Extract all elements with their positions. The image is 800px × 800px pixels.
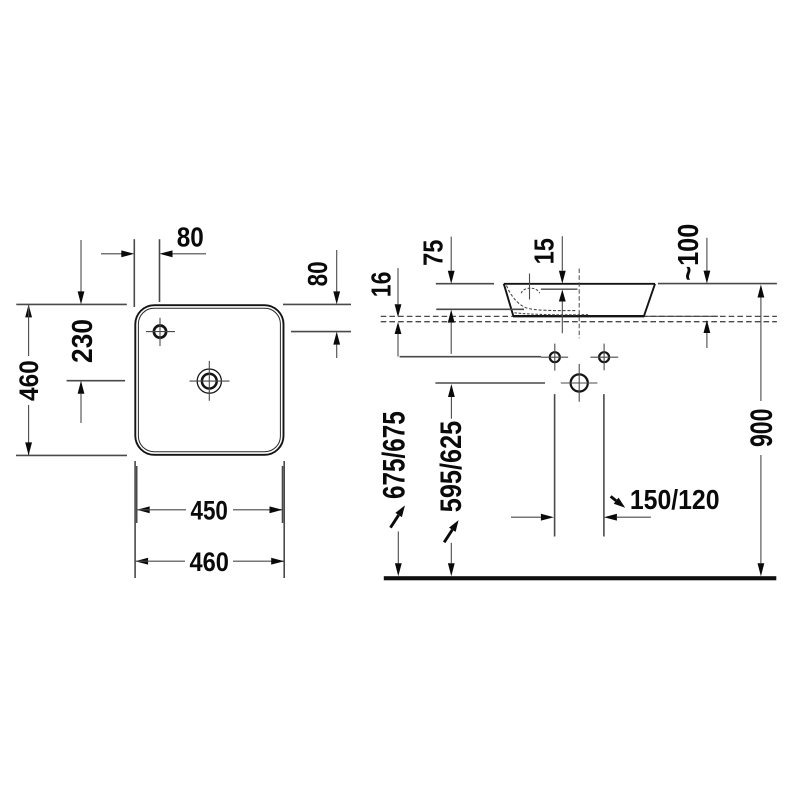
svg-text:595/625: 595/625 [435,421,468,513]
svg-text:~100: ~100 [673,224,705,281]
svg-text:450: 450 [191,496,228,526]
svg-text:150/120: 150/120 [630,484,720,515]
svg-text:80: 80 [177,221,204,252]
svg-text:16: 16 [365,272,396,298]
svg-text:75: 75 [418,240,449,266]
svg-text:675/675: 675/675 [376,411,412,499]
svg-text:80: 80 [302,261,333,286]
svg-text:460: 460 [190,547,229,577]
svg-text:460: 460 [14,360,44,401]
svg-text:15: 15 [529,238,560,264]
svg-text:230: 230 [67,319,99,363]
svg-text:900: 900 [743,409,779,448]
